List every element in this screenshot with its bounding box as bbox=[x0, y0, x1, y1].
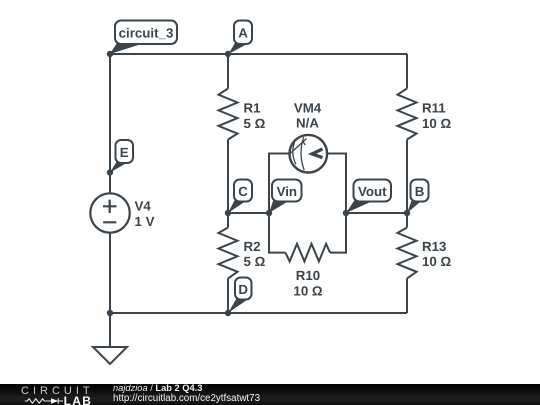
svg-text:R13: R13 bbox=[422, 239, 446, 254]
svg-text:1 V: 1 V bbox=[135, 214, 155, 229]
svg-text:5 Ω: 5 Ω bbox=[244, 116, 266, 131]
svg-text:R11: R11 bbox=[422, 101, 446, 116]
svg-text:D: D bbox=[238, 282, 248, 297]
svg-text:R1: R1 bbox=[244, 101, 262, 116]
svg-text:10 Ω: 10 Ω bbox=[293, 284, 322, 299]
svg-text:V4: V4 bbox=[135, 198, 152, 213]
svg-text:N/A: N/A bbox=[296, 115, 319, 130]
svg-text:circuit_3: circuit_3 bbox=[119, 26, 174, 41]
svg-text:A: A bbox=[238, 26, 248, 41]
svg-text:5 Ω: 5 Ω bbox=[244, 254, 266, 269]
svg-text:C: C bbox=[238, 184, 248, 199]
svg-text:R10: R10 bbox=[296, 268, 320, 283]
svg-text:B: B bbox=[415, 184, 425, 199]
svg-text:10 Ω: 10 Ω bbox=[422, 254, 451, 269]
svg-text:Vin: Vin bbox=[277, 184, 297, 199]
svg-text:R2: R2 bbox=[244, 239, 261, 254]
svg-text:10 Ω: 10 Ω bbox=[422, 116, 451, 131]
svg-text:Vout: Vout bbox=[358, 184, 387, 199]
svg-text:E: E bbox=[120, 145, 129, 160]
svg-text:VM4: VM4 bbox=[294, 101, 322, 116]
